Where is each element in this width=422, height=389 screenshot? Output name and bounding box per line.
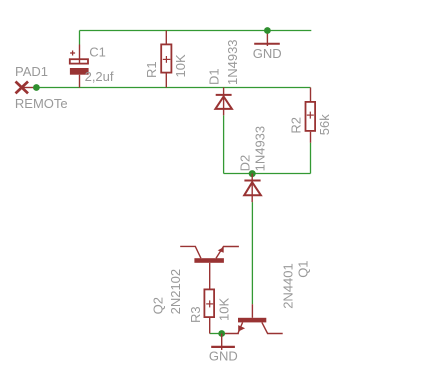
svg-text:R1: R1 xyxy=(144,61,159,78)
junction node D2 top xyxy=(249,170,256,177)
wire C1 top vertical xyxy=(79,31,81,45)
svg-text:REMOTe: REMOTe xyxy=(15,96,68,111)
resistor R1 xyxy=(161,31,171,88)
wire box bottom horizontal xyxy=(224,173,311,175)
svg-text:Q1: Q1 xyxy=(296,260,311,277)
diode D2 1N4933 xyxy=(244,174,261,203)
junction node at GND top xyxy=(264,27,271,34)
svg-text:D2: D2 xyxy=(238,155,253,172)
ground GND bottom xyxy=(211,334,235,350)
svg-text:GND: GND xyxy=(209,348,238,363)
transistor Q2 2N2102 xyxy=(180,246,239,288)
svg-text:2N2102: 2N2102 xyxy=(168,269,183,315)
ground GND top xyxy=(254,31,280,46)
wire main horizontal net REMOTE xyxy=(36,87,310,89)
pad PAD1 xyxy=(16,82,35,94)
svg-text:D1: D1 xyxy=(207,68,222,85)
junction node GND bottom xyxy=(218,330,225,337)
svg-text:C1: C1 xyxy=(89,44,106,59)
svg-text:GND: GND xyxy=(253,46,282,61)
svg-text:56k: 56k xyxy=(317,114,332,135)
wire R3 to GND junction xyxy=(210,333,222,335)
svg-text:R3: R3 xyxy=(188,306,203,323)
wire top horizontal net xyxy=(80,30,312,32)
svg-text:1N4933: 1N4933 xyxy=(225,39,240,85)
wire D2 to Q1 base xyxy=(251,202,253,304)
resistor R3 xyxy=(204,289,214,333)
resistor R2 xyxy=(306,88,316,143)
capacitor C1 xyxy=(70,45,89,88)
svg-text:10K: 10K xyxy=(173,54,188,77)
svg-text:2N4401: 2N4401 xyxy=(281,263,296,309)
svg-text:2,2uf: 2,2uf xyxy=(85,69,114,84)
svg-text:R2: R2 xyxy=(288,117,303,134)
diode D1 1N4933 xyxy=(215,88,232,116)
svg-text:1N4933: 1N4933 xyxy=(252,126,267,172)
junction node REMOTE at PAD1 xyxy=(33,84,40,91)
svg-text:PAD1: PAD1 xyxy=(15,64,48,79)
svg-text:10K: 10K xyxy=(217,298,232,321)
wire D1 cathode to box xyxy=(223,115,225,173)
wire R2 bottom vertical xyxy=(310,143,312,174)
svg-text:Q2: Q2 xyxy=(151,297,166,314)
transistor Q1 2N4401 xyxy=(222,304,283,333)
